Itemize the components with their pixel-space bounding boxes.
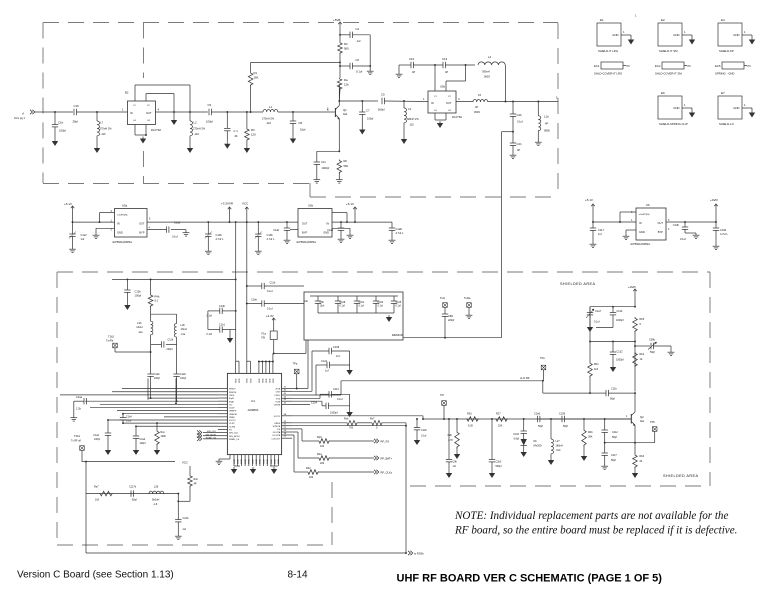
svg-text:R1: R1	[254, 71, 258, 75]
svg-text:SHIELD-LO: SHIELD-LO	[719, 122, 735, 126]
svg-text:56pf: 56pf	[612, 436, 617, 439]
svg-text:R3: R3	[251, 128, 255, 132]
svg-text:-310: -310	[556, 449, 561, 452]
svg-text:+AVR: +AVR	[628, 285, 637, 289]
svg-text:4P: 4P	[517, 148, 520, 152]
svg-text:Rp6: Rp6	[317, 436, 322, 439]
svg-text:C2b: C2b	[517, 113, 523, 117]
svg-text:C1a7: C1a7	[595, 310, 602, 313]
svg-text:GND: GND	[260, 459, 262, 464]
svg-text:100: 100	[320, 445, 325, 448]
svg-text:SPRING - GND: SPRING - GND	[715, 72, 734, 76]
svg-text:4P: 4P	[475, 105, 478, 109]
svg-text:-11a: -11a	[138, 331, 143, 334]
svg-text:RF_BAT+: RF_BAT+	[381, 457, 393, 461]
svg-text:-1-8: -1-8	[153, 503, 158, 506]
svg-text:0.1uf: 0.1uf	[359, 305, 365, 308]
svg-text:GND: GND	[733, 33, 739, 37]
svg-text:2.2b: 2.2b	[76, 408, 81, 411]
svg-text:5b0uH: 5b0uH	[152, 499, 160, 502]
svg-text:IN: IN	[639, 221, 642, 225]
svg-text:22K: 22K	[498, 425, 503, 428]
svg-text:C8: C8	[299, 121, 303, 125]
svg-text:nCP5661ARMSbx: nCP5661ARMSbx	[112, 241, 133, 244]
svg-text:Cxb: Cxb	[304, 300, 309, 303]
svg-text:100pf: 100pf	[135, 294, 142, 298]
svg-text:-110: -110	[194, 132, 200, 136]
svg-text:R4b: R4b	[155, 295, 160, 299]
svg-text:100pf: 100pf	[59, 129, 66, 133]
svg-text:E7: E7	[721, 91, 725, 95]
svg-text:C117b: C117b	[129, 486, 137, 489]
svg-text:GND: GND	[612, 33, 618, 37]
svg-text:C104: C104	[513, 433, 519, 436]
svg-text:C1bb: C1bb	[183, 517, 190, 520]
svg-text:L2: L2	[194, 121, 198, 125]
svg-text:C9: C9	[381, 93, 385, 97]
svg-text:SHLD-COVER-IT LRG: SHLD-COVER-IT LRG	[594, 72, 622, 76]
svg-text:56pf: 56pf	[650, 351, 655, 354]
svg-text:C1a5: C1a5	[174, 221, 181, 225]
svg-text:VCC: VCC	[242, 202, 249, 206]
svg-text:220pf: 220pf	[167, 348, 173, 351]
svg-text:+5.1V: +5.1V	[346, 202, 354, 206]
svg-text:FB: FB	[262, 336, 266, 340]
svg-text:C2b0: C2b0	[496, 461, 502, 464]
svg-text:560pf: 560pf	[378, 108, 385, 112]
svg-text:C9: C9	[208, 103, 212, 107]
svg-text:C12b: C12b	[135, 290, 142, 294]
svg-text:C117: C117	[611, 454, 617, 457]
svg-text:0.1uf: 0.1uf	[206, 315, 212, 318]
svg-text:GND: GND	[234, 459, 236, 464]
svg-text:1000pf: 1000pf	[616, 359, 624, 362]
svg-text:Rx7: Rx7	[370, 418, 375, 421]
svg-text:U5b: U5b	[440, 85, 446, 89]
svg-text:VREFP: VREFP	[229, 411, 237, 413]
svg-text:TPr: TPr	[440, 393, 444, 397]
svg-text:C11Y: C11Y	[598, 228, 605, 232]
svg-text:IN: IN	[117, 222, 120, 226]
svg-text:MV209: MV209	[534, 445, 543, 448]
svg-text:VREF: VREF	[229, 417, 235, 419]
svg-text:GND: GND	[252, 459, 254, 464]
svg-text:VDD: VDD	[259, 378, 261, 383]
svg-text:EC5: EC5	[715, 64, 721, 68]
svg-text:36K: 36K	[588, 436, 593, 439]
svg-text:CRVL: CRVL	[229, 395, 236, 397]
svg-text:VDD: VDD	[250, 378, 252, 383]
svg-text:C13b: C13b	[219, 305, 226, 308]
svg-text:0.1uf: 0.1uf	[267, 290, 273, 293]
svg-text:SYNCB: SYNCB	[273, 426, 281, 428]
svg-text:SHLD-COVER-IT SM: SHLD-COVER-IT SM	[655, 72, 682, 76]
svg-text:82pf: 82pf	[132, 499, 137, 502]
svg-text:SHIELDED AREA: SHIELDED AREA	[663, 474, 698, 478]
svg-text:TH1: TH1	[440, 296, 445, 300]
svg-text:VDD: VDD	[235, 378, 237, 383]
svg-text:IN: IN	[431, 101, 434, 105]
svg-text:4P: 4P	[194, 483, 197, 486]
svg-text:C13b: C13b	[267, 233, 274, 237]
svg-text:1000pf: 1000pf	[616, 319, 624, 322]
svg-text:GND: GND	[245, 459, 247, 464]
svg-text:8-14: 8-14	[288, 570, 308, 581]
svg-text:OUT: OUT	[658, 221, 664, 225]
svg-text:0.1uf: 0.1uf	[396, 305, 402, 308]
svg-text:VDD: VDD	[239, 378, 241, 383]
svg-text:4.7uf L: 4.7uf L	[720, 232, 728, 236]
svg-text:DLF762: DLF762	[452, 115, 462, 119]
svg-text:R22: R22	[306, 467, 311, 470]
svg-text:PC: PC	[627, 65, 631, 68]
svg-text:16K: 16K	[254, 76, 259, 80]
svg-text:C11b: C11b	[270, 282, 276, 285]
svg-text:T1b2: T1b2	[108, 335, 114, 339]
svg-text:4.7uf L: 4.7uf L	[267, 237, 275, 241]
svg-text:Rb2: Rb2	[640, 353, 645, 356]
svg-text:1b4: 1b4	[594, 368, 599, 371]
svg-text:VDD: VDD	[262, 378, 264, 383]
svg-text:xGxRT(IN): xGxRT(IN)	[639, 214, 650, 216]
svg-text:+5.1V: +5.1V	[585, 198, 593, 202]
svg-text:0.1uf: 0.1uf	[337, 398, 343, 401]
svg-text:56pf: 56pf	[563, 425, 568, 428]
svg-text:U1: U1	[251, 399, 255, 403]
svg-text:C10: C10	[409, 57, 415, 61]
svg-text:1/1uf: 1/1uf	[126, 420, 132, 423]
svg-text:VDD: VDD	[273, 378, 275, 383]
svg-text:100: 100	[95, 499, 100, 502]
svg-text:C89: C89	[448, 314, 453, 318]
svg-text:270nH 2%: 270nH 2%	[100, 127, 113, 131]
svg-text:L5: L5	[478, 93, 482, 97]
svg-text:C1a8: C1a8	[396, 227, 403, 231]
svg-text:PC: PC	[748, 65, 752, 68]
svg-text:E6: E6	[661, 91, 665, 95]
svg-text:TPb: TPb	[650, 420, 655, 424]
svg-text:C58b: C58b	[649, 339, 656, 342]
svg-text:100pf: 100pf	[154, 377, 160, 380]
svg-text:R26: R26	[467, 413, 472, 416]
svg-text:TH2a: TH2a	[464, 296, 471, 300]
svg-text:0.1uf: 0.1uf	[267, 308, 273, 311]
svg-text:56pf: 56pf	[538, 425, 543, 428]
svg-text:1uf: 1uf	[81, 237, 85, 241]
svg-text:0603: 0603	[474, 110, 480, 114]
svg-text:C1a2: C1a2	[140, 438, 146, 441]
svg-text:L27: L27	[556, 440, 561, 443]
svg-text:+5.1V: +5.1V	[64, 202, 72, 206]
svg-text:Q2: Q2	[640, 415, 644, 419]
svg-text:E1: E1	[600, 18, 604, 22]
svg-text:C11b: C11b	[611, 388, 617, 391]
svg-text:GND: GND	[256, 459, 258, 464]
svg-text:CLKP: CLKP	[229, 423, 235, 425]
svg-text:1uf: 1uf	[325, 369, 329, 373]
svg-text:C1b4: C1b4	[126, 416, 132, 419]
svg-text:NOTE: Individual replacement p: NOTE: Individual replacement parts are n…	[454, 510, 728, 522]
svg-text:+3.3V: +3.3V	[266, 314, 274, 318]
svg-text:VDD: VDD	[247, 378, 249, 383]
svg-text:IFpA: IFpA	[229, 400, 234, 403]
svg-text:C21: C21	[517, 142, 523, 146]
svg-text:Rxb: Rxb	[194, 478, 199, 481]
svg-text:GND: GND	[271, 459, 273, 464]
svg-text:CNVL: CNVL	[274, 395, 281, 397]
svg-text:1000pf: 1000pf	[330, 412, 338, 415]
svg-text:BYP: BYP	[139, 231, 144, 235]
svg-text:IOUTL: IOUTL	[274, 416, 281, 418]
svg-text:0.1uf: 0.1uf	[206, 333, 212, 336]
svg-text:WRCM: WRCM	[229, 392, 236, 394]
svg-text:0.1uf: 0.1uf	[340, 305, 346, 308]
svg-text:L7: L7	[100, 121, 104, 125]
svg-text:C1aa: C1aa	[76, 396, 83, 399]
svg-text:R2b: R2b	[588, 431, 593, 434]
svg-text:L4: L4	[488, 55, 492, 59]
svg-text:U6: U6	[646, 203, 650, 207]
svg-text:OUT: OUT	[146, 111, 152, 115]
svg-text:R2: R2	[344, 42, 348, 46]
svg-text:VREFM: VREFM	[229, 414, 237, 416]
svg-text:C1b6: C1b6	[534, 413, 541, 416]
svg-text:C6: C6	[356, 58, 360, 62]
svg-text:6.2K: 6.2K	[468, 425, 473, 428]
svg-text:C12b: C12b	[168, 339, 174, 342]
svg-text:C1a7: C1a7	[81, 233, 88, 237]
svg-text:VCG: VCG	[182, 461, 188, 465]
svg-text:Rba: Rba	[317, 453, 322, 456]
svg-text:C1a6: C1a6	[180, 373, 186, 376]
svg-text:SHIELD-IT SM: SHIELD-IT SM	[659, 49, 678, 53]
svg-text:Rb: Rb	[344, 159, 348, 163]
svg-text:IFpB: IFpB	[229, 398, 234, 400]
svg-text:Ra7: Ra7	[94, 486, 99, 489]
svg-text:560pf: 560pf	[496, 465, 502, 468]
svg-text:1uf: 1uf	[183, 528, 187, 531]
svg-text:SIN_MOSI: SIN_MOSI	[206, 434, 217, 436]
svg-text:1000pf: 1000pf	[322, 167, 330, 170]
svg-text:C112: C112	[612, 431, 618, 434]
svg-text:xFsB: xFsB	[275, 389, 281, 391]
svg-text:C1bb: C1bb	[251, 299, 258, 302]
svg-text:1uf: 1uf	[357, 39, 361, 43]
svg-text:0.1uf: 0.1uf	[594, 321, 600, 324]
svg-text:+AVR: +AVR	[710, 198, 719, 202]
svg-text:100pf: 100pf	[140, 442, 146, 445]
svg-text:4b: 4b	[235, 134, 239, 138]
svg-text:GND: GND	[733, 106, 739, 110]
svg-text:-110: -110	[409, 124, 414, 127]
svg-text:E2: E2	[661, 18, 665, 22]
svg-text:SHIELDED AREA: SHIELDED AREA	[560, 282, 595, 286]
svg-text:120: 120	[251, 133, 256, 137]
svg-text:0603: 0603	[484, 75, 490, 79]
svg-text:IN: IN	[326, 222, 329, 226]
svg-text:-110: -110	[266, 121, 272, 125]
svg-text:0805: 0805	[544, 129, 550, 133]
svg-text:100pf: 100pf	[94, 438, 100, 441]
svg-text:C13b: C13b	[673, 223, 680, 227]
svg-text:100b: 100b	[161, 435, 167, 438]
svg-text:C1a4: C1a4	[327, 229, 333, 232]
svg-text:L1b: L1b	[544, 115, 549, 119]
svg-text:OUT: OUT	[446, 101, 452, 105]
svg-text:+5VB: +5VB	[333, 18, 340, 22]
svg-text:C7: C7	[366, 109, 370, 113]
svg-text:SHIELD-KP: SHIELD-KP	[719, 49, 734, 53]
svg-text:U5a: U5a	[122, 204, 128, 208]
svg-text:Tx RF off: Tx RF off	[71, 440, 81, 443]
svg-text:390nH: 390nH	[482, 70, 490, 74]
svg-text:0.1uf: 0.1uf	[517, 120, 523, 124]
svg-text:C111: C111	[333, 387, 339, 391]
svg-text:4.7uf L: 4.7uf L	[216, 237, 224, 241]
svg-text:100pf: 100pf	[180, 377, 186, 380]
svg-text:9.1: 9.1	[155, 299, 159, 303]
svg-text:SIN_CLK: SIN_CLK	[207, 431, 217, 433]
svg-text:EC1: EC1	[594, 64, 600, 68]
svg-text:U5b: U5b	[308, 204, 314, 208]
svg-text:C1b: C1b	[58, 121, 64, 125]
svg-text:GND: GND	[267, 459, 269, 464]
svg-text:GND: GND	[263, 459, 265, 464]
svg-text:GND: GND	[249, 459, 251, 464]
svg-text:0.1uf: 0.1uf	[378, 305, 384, 308]
svg-text:9a1: 9a1	[640, 420, 645, 423]
svg-text:R2b: R2b	[448, 434, 453, 437]
svg-text:VCM: VCM	[275, 401, 280, 403]
svg-text:C13: C13	[442, 57, 448, 61]
svg-text:CLKOUT: CLKOUT	[271, 438, 281, 440]
svg-text:PC: PC	[688, 65, 692, 68]
svg-text:IN: IN	[130, 111, 133, 115]
svg-text:10pf: 10pf	[300, 128, 306, 132]
svg-text:1uf: 1uf	[598, 232, 602, 236]
svg-text:C104: C104	[311, 402, 318, 405]
svg-text:RF board, so the entire board: RF board, so the entire board must be re…	[454, 525, 737, 537]
svg-text:C1a6: C1a6	[273, 229, 279, 232]
svg-text:TPa: TPa	[293, 362, 298, 366]
svg-text:L2b: L2b	[137, 321, 142, 325]
svg-text:GND: GND	[275, 459, 277, 464]
svg-text:100pf: 100pf	[206, 120, 213, 124]
svg-text:RXBE_CS: RXBE_CS	[206, 437, 217, 439]
svg-text:C1b1: C1b1	[219, 324, 226, 327]
svg-text:C9b: C9b	[453, 461, 458, 464]
svg-text:1uf: 1uf	[453, 465, 457, 468]
svg-text:700: 700	[349, 427, 354, 430]
svg-text:C16: C16	[74, 104, 80, 108]
svg-text:GND: GND	[238, 459, 240, 464]
svg-text:VDD: VDD	[269, 378, 271, 383]
svg-text:OUT: OUT	[302, 222, 308, 226]
svg-text:WRCP: WRCP	[229, 389, 236, 391]
svg-text:AD9864: AD9864	[248, 408, 259, 412]
svg-text:Rb4: Rb4	[640, 455, 645, 458]
svg-text:560: 560	[344, 47, 349, 51]
svg-text:4P: 4P	[412, 70, 415, 74]
svg-text:C132: C132	[617, 351, 624, 354]
svg-text:C 1: C 1	[234, 129, 239, 133]
svg-text:GND: GND	[278, 459, 280, 464]
svg-text:-11a: -11a	[181, 333, 186, 336]
svg-text:from pg 1: from pg 1	[14, 116, 26, 120]
svg-text:220: 220	[320, 462, 325, 465]
svg-text:GC: GC	[229, 404, 233, 406]
svg-text:C11b: C11b	[617, 310, 623, 313]
svg-text:CNV: CNV	[276, 391, 281, 393]
svg-text:1uf: 1uf	[336, 354, 340, 358]
svg-text:C102: C102	[421, 429, 427, 432]
svg-text:C11: C11	[321, 160, 326, 164]
svg-text:SHIELD-SPRING CLIP: SHIELD-SPRING CLIP	[659, 122, 688, 126]
svg-text:TPe: TPe	[540, 356, 545, 360]
svg-text:E4: E4	[721, 18, 725, 22]
svg-text:OUT: OUT	[139, 222, 145, 226]
svg-text:56pf: 56pf	[611, 459, 616, 462]
svg-text:12b: 12b	[344, 83, 349, 87]
svg-text:270nH 2%: 270nH 2%	[262, 117, 275, 121]
svg-text:C19b: C19b	[720, 228, 727, 232]
svg-text:C105: C105	[333, 345, 340, 349]
svg-text:C4: C4	[356, 27, 360, 31]
svg-text:-110: -110	[101, 132, 107, 136]
svg-text:Q1: Q1	[343, 108, 347, 112]
svg-text:RF_FS: RF_FS	[381, 440, 390, 444]
svg-text:F1a: F1a	[262, 332, 267, 336]
svg-text:C1a6: C1a6	[154, 373, 160, 376]
svg-text:4P: 4P	[445, 70, 448, 74]
svg-text:CRVM: CRVM	[274, 405, 281, 407]
svg-text:220: 220	[309, 476, 314, 479]
svg-text:GND: GND	[241, 459, 243, 464]
svg-text:29pf: 29pf	[73, 120, 79, 124]
svg-text:BYP: BYP	[302, 231, 307, 235]
svg-text:10uH: 10uH	[181, 327, 187, 331]
svg-text:0.1uf: 0.1uf	[680, 237, 686, 241]
svg-text:BYP: BYP	[658, 230, 663, 234]
svg-text:CLKM: CLKM	[229, 426, 235, 428]
svg-text:C1a2: C1a2	[93, 434, 99, 437]
svg-text:to RSSb: to RSSb	[414, 552, 424, 556]
svg-text:Version C Board (see Section 1: Version C Board (see Section 1.13)	[17, 570, 174, 581]
svg-text:Ra: Ra	[344, 78, 348, 82]
svg-text:Rnn: Rnn	[161, 431, 166, 434]
svg-text:VDD: VDD	[266, 378, 268, 383]
svg-text:C121: C121	[321, 359, 328, 363]
svg-text:56pf: 56pf	[610, 398, 615, 401]
svg-text:vLO RF: vLO RF	[520, 376, 530, 380]
svg-text:220pf: 220pf	[448, 319, 455, 322]
svg-text:R27: R27	[496, 413, 501, 416]
svg-text:GND: GND	[673, 33, 679, 37]
svg-text:180nH: 180nH	[556, 445, 564, 448]
svg-text:RF_CLKx: RF_CLKx	[381, 471, 393, 475]
svg-text:L28: L28	[154, 486, 159, 489]
svg-text:FREF: FREF	[274, 423, 280, 425]
svg-text:10uH: 10uH	[136, 325, 142, 329]
svg-text:0.1uf: 0.1uf	[356, 70, 362, 74]
svg-text:RXBE_CS: RXBE_CS	[229, 439, 240, 441]
svg-text:9a1: 9a1	[343, 112, 348, 116]
svg-text:rf: rf	[22, 112, 24, 116]
svg-text:10uf: 10uf	[320, 305, 325, 308]
svg-text:4P: 4P	[545, 122, 548, 126]
svg-text:xGxRT(IN): xGxRT(IN)	[117, 215, 128, 217]
svg-text:270nH 2%: 270nH 2%	[193, 127, 206, 131]
